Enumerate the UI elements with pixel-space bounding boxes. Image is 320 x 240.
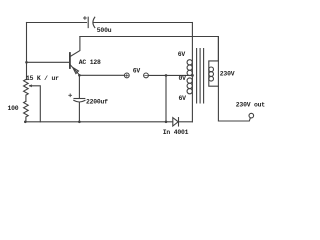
- node center tap dot: [191, 74, 194, 77]
- svg-text:AC 128: AC 128: [79, 59, 101, 66]
- wire secondary backbone down to output: [218, 37, 250, 122]
- wire left vertical: [26, 23, 28, 80]
- node emitter dot: [78, 74, 81, 77]
- svg-text:In 4001: In 4001: [163, 129, 189, 136]
- transformer T1 primary winding upper loops: [187, 60, 192, 65]
- svg-text:100: 100: [8, 105, 19, 112]
- svg-text:6V: 6V: [178, 51, 186, 58]
- wire battery minus to center tap: [148, 74, 192, 76]
- capacitor C2 2200uf straight plate: [74, 98, 85, 100]
- diode D1 cathode bar: [178, 118, 180, 126]
- battery terminal plus circle: [124, 73, 129, 78]
- wire top rail right segment: [93, 22, 192, 24]
- wire primary backbone: [191, 23, 193, 122]
- wire base: [27, 61, 70, 63]
- transformer T1 secondary winding loops: [209, 67, 214, 72]
- output terminal circle 230V: [249, 113, 254, 118]
- node base branch dot: [25, 61, 28, 64]
- wire top rail left segment: [27, 22, 87, 24]
- resistor R1 15K zigzag: [24, 80, 29, 102]
- wire minus branch down: [165, 75, 167, 121]
- svg-text:0V: 0V: [179, 75, 187, 82]
- node bottom rail diode junction dot: [165, 121, 168, 124]
- svg-text:230V: 230V: [220, 70, 235, 77]
- potentiometer wiper arrow wire: [30, 86, 41, 122]
- wire collector to secondary top: [80, 37, 219, 62]
- transformer T1 primary winding lower loops: [187, 78, 192, 83]
- svg-text:230V out: 230V out: [236, 102, 265, 109]
- transformer T1 core lines: [197, 49, 204, 104]
- svg-text:6V: 6V: [133, 68, 141, 75]
- capacitor C2 plus sign: [69, 94, 72, 97]
- svg-text:6V: 6V: [179, 95, 187, 102]
- wire capacitor C2 to bottom rail: [78, 102, 80, 122]
- node battery minus branch dot: [165, 74, 168, 77]
- transistor Q1 base bar: [69, 53, 71, 68]
- battery terminal minus circle: [144, 73, 149, 78]
- wire emitter to battery plus: [79, 74, 124, 76]
- capacitor C1 500u straight plate: [87, 17, 89, 27]
- transistor Q1 collector diagonal: [71, 37, 80, 57]
- svg-text:15 K / ur: 15 K / ur: [26, 75, 59, 82]
- capacitor C2 2200uf curved plate: [74, 100, 85, 102]
- node capacitor bottom dot: [78, 121, 81, 124]
- capacitor C1 plus sign: [84, 17, 87, 20]
- node rail left dot: [24, 121, 27, 124]
- resistor R2 100 zigzag: [24, 101, 29, 122]
- transistor Q1 emitter diagonal: [71, 65, 80, 75]
- svg-text:2200uf: 2200uf: [86, 98, 108, 105]
- transistor Q1 emitter arrowhead: [73, 68, 79, 74]
- wire bottom rail: [25, 121, 172, 123]
- wire diode to primary bottom: [179, 121, 193, 123]
- potentiometer wiper arrowhead: [29, 84, 32, 87]
- diode D1 triangle: [173, 118, 178, 126]
- capacitor C1 500u curved plate: [93, 17, 95, 27]
- wire emitter down to capacitor C2: [78, 75, 80, 98]
- transformer T1 secondary top stub: [209, 61, 219, 86]
- svg-text:500u: 500u: [97, 27, 112, 34]
